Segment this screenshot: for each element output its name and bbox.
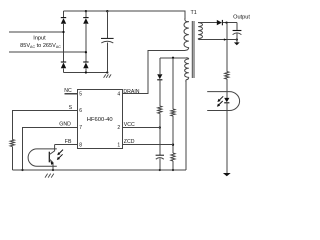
svg-text:ZCD: ZCD — [124, 139, 135, 145]
wire input line 1 — [9, 31, 64, 33]
wire bridge bottom rail — [64, 72, 108, 74]
crossing arrow mark on secondary return — [224, 38, 227, 40]
svg-text:FB: FB — [65, 139, 72, 145]
node GND / ground rail junction — [21, 169, 23, 171]
capacitor C3 (output electrolytic) — [233, 31, 242, 35]
wire bulk cap top lead — [106, 11, 108, 38]
capacitor C2 (VCC filter) — [156, 155, 164, 159]
svg-text:Output: Output — [233, 14, 250, 20]
wire right column middle — [85, 24, 87, 62]
wire secondary top to diode — [198, 22, 217, 24]
ground (bridge negative rail) — [104, 74, 112, 77]
svg-text:VCC: VCC — [124, 122, 135, 128]
transformer T1 primary winding — [184, 22, 189, 48]
wire ground rail — [12, 169, 186, 171]
wire top rail to transformer — [64, 11, 185, 19]
node bridge-bottom / right column junction — [85, 71, 87, 73]
wire ZCD branch middle — [172, 116, 174, 153]
wire aux winding return to ground rail — [185, 81, 187, 170]
ground arrow (output return) — [234, 42, 240, 45]
diode D2 (bridge top-right) — [83, 18, 88, 24]
wire VCC branch to resistor — [159, 80, 161, 106]
svg-text:HF600-40: HF600-40 — [87, 117, 113, 123]
wire right column upper — [85, 11, 87, 17]
node VCC cap / ground rail junction — [159, 169, 161, 171]
wire bulk cap bottom lead — [106, 42, 108, 72]
svg-text:5: 5 — [79, 91, 82, 97]
op-amp U1 HF600-40 controller IC body — [78, 90, 123, 149]
svg-text:S: S — [69, 105, 73, 111]
wire drain net (primary bottom to DRAIN pin) — [123, 50, 186, 93]
node VCC pin junction — [159, 126, 161, 128]
resistor R3 (ZCD lower divider) — [171, 153, 175, 161]
node output cap / secondary return junction — [236, 38, 238, 40]
transformer T1 core — [192, 21, 194, 78]
wire right column lower — [85, 68, 87, 72]
svg-text:4: 4 — [117, 91, 120, 97]
diode D1 (bridge top-left) — [61, 18, 66, 24]
wire sense resistor to ground rail — [11, 147, 13, 171]
wire feedback line lower — [226, 103, 228, 173]
svg-text:DRAIN: DRAIN — [123, 89, 139, 95]
wire input line 2 — [9, 51, 86, 53]
wire left column middle — [63, 24, 65, 62]
node input line1 / left column junction — [62, 31, 64, 33]
wire feedback to LED — [226, 79, 228, 98]
transistor Q1 phototransistor symbol — [49, 145, 54, 170]
wire left column lower — [63, 68, 65, 72]
svg-text:NC: NC — [64, 88, 72, 94]
wire ZCD branch to ground rail — [172, 161, 174, 170]
wire secondary bottom return — [200, 39, 237, 41]
svg-text:T1: T1 — [191, 10, 197, 16]
diode D5 (VCC rectifier) — [157, 74, 162, 80]
wire secondary bottom hook — [198, 39, 200, 40]
node top-rail / right bridge column junction — [85, 10, 87, 12]
diode D4 (bridge bottom-right) — [83, 62, 88, 68]
wire left column upper — [63, 11, 65, 17]
resistor R4 (source sense) — [10, 140, 14, 147]
wire pin6 S to sense resistor — [12, 110, 77, 139]
node aux-top / ZCD divider junction — [172, 57, 174, 59]
node ZCD pin junction — [172, 144, 174, 146]
diode D6 (output rectifier) — [217, 20, 223, 25]
ground (IC side) — [45, 174, 54, 178]
svg-text:1: 1 — [117, 142, 120, 148]
node bridge-bottom / bulk cap junction — [106, 71, 108, 73]
ground arrow (secondary return) — [223, 173, 231, 176]
node top-rail / bulk cap junction — [106, 10, 108, 12]
wire VCC cap to ground rail — [159, 158, 161, 170]
wire aux bottom hook — [186, 77, 189, 81]
svg-text:GND: GND — [59, 122, 71, 128]
svg-text:Input: Input — [33, 36, 46, 42]
svg-text:85VAC to 265VAC: 85VAC to 265VAC — [20, 43, 61, 49]
svg-text:7: 7 — [79, 125, 82, 131]
wire pin8 FB to optocoupler — [55, 144, 78, 146]
wire top rail hook into primary — [185, 19, 189, 22]
wire pin1 ZCD line — [123, 144, 174, 146]
wire primary bottom hook — [185, 48, 189, 51]
resistor R2 (ZCD upper divider) — [171, 109, 175, 116]
optocoupler U2 phototransistor package outline — [28, 149, 57, 166]
wire pin7 GND to ground rail — [23, 128, 78, 171]
optocoupler U2 LED package outline — [207, 92, 239, 111]
svg-text:8: 8 — [79, 142, 82, 148]
svg-text:2: 2 — [117, 125, 120, 131]
wire feedback line upper — [226, 23, 228, 72]
wire VCC branch to cap — [159, 114, 161, 156]
wire pin2 VCC line — [123, 127, 160, 129]
wire aux top hook — [186, 58, 189, 59]
resistor R5 (LED series) — [225, 72, 229, 80]
node ZCD branch / ground rail junction — [172, 169, 174, 171]
node input line2 / right column junction — [85, 51, 87, 53]
resistor R1 (VCC series) — [158, 106, 162, 114]
light arrows out of LED — [217, 96, 223, 106]
node output / feedback junction — [225, 21, 227, 23]
light arrows into phototransistor — [57, 150, 63, 160]
wire pin5 NC stub — [65, 93, 78, 95]
wire output cap to return — [236, 33, 238, 39]
node opto emitter / ground rail junction — [52, 169, 54, 171]
transformer T1 secondary winding — [198, 23, 202, 39]
capacitor C1 (bulk electrolytic) — [101, 38, 114, 43]
wire return ground stem — [236, 40, 238, 43]
LED D7 (optocoupler emitter) — [224, 98, 229, 103]
wire ZCD branch upper — [172, 58, 174, 109]
transformer T1 auxiliary winding — [185, 59, 189, 77]
wire diode to output node — [222, 22, 237, 24]
wire VCC branch upper — [159, 58, 161, 74]
wire aux winding top to VCC/ZCD branches — [160, 57, 187, 59]
wire output node down to cap — [236, 23, 238, 31]
diode D3 (bridge bottom-left) — [61, 62, 66, 68]
svg-text:6: 6 — [79, 108, 82, 114]
